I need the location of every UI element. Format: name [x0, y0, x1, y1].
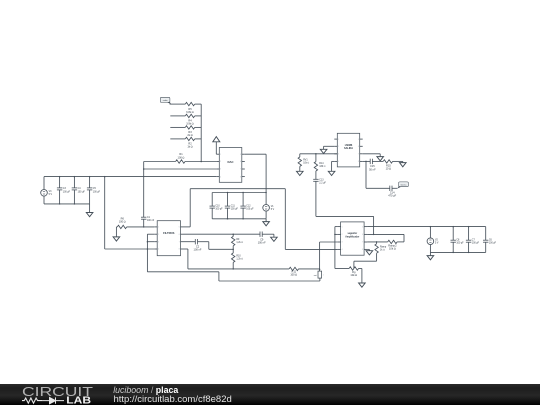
- wire R6 to FILTROS pin1: [127, 226, 155, 228]
- svg-text:audio: audio: [163, 100, 168, 102]
- svg-text:1: 1: [338, 139, 339, 141]
- wire Ramp top: [376, 242, 378, 244]
- wire node to speaker: [319, 269, 321, 271]
- CircuitLab logo wordmark: [22, 384, 93, 405]
- svg-text:C7: C7: [472, 240, 476, 242]
- wire right bank bottom rail: [430, 251, 485, 253]
- ground LM386 pin7: [377, 154, 384, 161]
- wire L2 horizontal: [147, 271, 219, 273]
- wire speaker feed right: [366, 187, 390, 189]
- svg-text:2: 2: [342, 234, 343, 236]
- wire seg tie vertical: [334, 227, 336, 269]
- svg-text:1: 1: [342, 226, 343, 228]
- wire C13 path down: [373, 216, 375, 234]
- svg-text:4: 4: [158, 249, 159, 251]
- wire C9 to corner: [262, 233, 274, 235]
- resistor Ramp2: [388, 240, 397, 251]
- svg-text:1k Ω: 1k Ω: [380, 249, 385, 252]
- svg-text:SALIDA: SALIDA: [344, 147, 353, 150]
- svg-text:C10: C10: [215, 205, 220, 207]
- svg-text:out: out: [314, 274, 317, 277]
- wire seg pin7 out: [367, 241, 388, 243]
- svg-text:6: 6: [240, 161, 241, 163]
- svg-text:3: 3: [220, 169, 221, 171]
- svg-text:V3: V3: [49, 191, 53, 193]
- junction Ramp top: [376, 241, 378, 243]
- node flag IN (audio input tag): [160, 97, 171, 104]
- svg-text:5: 5: [240, 154, 241, 156]
- svg-text:8: 8: [362, 249, 363, 251]
- junction right rail V2: [430, 226, 432, 228]
- ground zobel: [400, 161, 407, 166]
- svg-text:7: 7: [240, 169, 241, 171]
- svg-text:7: 7: [362, 242, 363, 244]
- junction bus-DAC wire: [200, 161, 202, 163]
- wire fb riser: [403, 234, 405, 242]
- svg-text:5 V: 5 V: [271, 209, 275, 211]
- junction tie pin3: [147, 241, 149, 243]
- svg-text:2,2 µF: 2,2 µF: [319, 183, 326, 185]
- svg-text:6,8k Ω: 6,8k Ω: [186, 110, 194, 114]
- svg-text:100 µF: 100 µF: [215, 209, 223, 211]
- junction tie pin4: [147, 248, 149, 250]
- svg-text:1,2k Ω: 1,2k Ω: [236, 241, 243, 244]
- capacitor C7: [466, 227, 480, 253]
- wire R3 to bus: [195, 126, 202, 128]
- capacitor C11: [225, 193, 239, 219]
- junction bottom C4: [59, 203, 75, 205]
- resistor R15 zobel: [383, 160, 392, 171]
- wire R11 to node: [299, 268, 320, 270]
- svg-text:8: 8: [179, 249, 180, 251]
- wire FILTROS pin2 out: [184, 233, 261, 235]
- wire R2 to bus: [195, 138, 202, 140]
- svg-text:R10: R10: [236, 255, 241, 257]
- wire Ramp2 right: [397, 241, 404, 243]
- resistor Ramp: [375, 244, 387, 253]
- wire divider top stub: [232, 234, 234, 236]
- svg-text:100 Ω: 100 Ω: [290, 273, 297, 277]
- capacitor C3: [57, 177, 71, 204]
- capacitor C10: [210, 193, 224, 219]
- junction C1 bottom: [143, 226, 145, 228]
- wire left bank top rail: [44, 176, 216, 178]
- ground LM386 pin4: [328, 161, 335, 175]
- ground LM386 pin2: [320, 146, 334, 153]
- junction mid rail V1: [265, 192, 267, 194]
- wire FILTROS out pin1: [184, 226, 191, 228]
- capacitor C8: [451, 227, 465, 253]
- wire left rail vertical: [104, 177, 106, 249]
- svg-text:100 µF: 100 µF: [78, 191, 86, 193]
- op-amp U4 seguidor block: [338, 222, 368, 255]
- capacitor C1 input coupling: [141, 217, 155, 227]
- svg-text:2k Ω: 2k Ω: [187, 133, 192, 137]
- svg-text:3,9k Ω: 3,9k Ω: [186, 122, 194, 126]
- junction R14 top: [315, 153, 317, 155]
- wire FILTROS pins tie vertical: [146, 234, 148, 272]
- svg-text:2: 2: [158, 234, 159, 236]
- wire right bank rail: [367, 226, 486, 228]
- svg-text:6: 6: [179, 234, 180, 236]
- capacitor C6: [483, 227, 497, 253]
- resistor R4: [185, 114, 194, 125]
- svg-text:C6: C6: [489, 240, 493, 242]
- svg-text:1: 1: [323, 275, 324, 277]
- wire signal A horizontal: [190, 188, 285, 190]
- wire R4 to bus: [195, 115, 202, 117]
- capacitor C9 series: [258, 232, 266, 245]
- power VCC arrow for DAC: [213, 137, 220, 155]
- svg-text:1k Ω: 1k Ω: [187, 145, 192, 149]
- svg-text:4: 4: [342, 249, 343, 251]
- svg-text:100 µF: 100 µF: [63, 191, 71, 193]
- resistor R11: [289, 267, 298, 277]
- junction rail C4: [74, 176, 76, 178]
- junction wire3 on vertical: [143, 168, 145, 170]
- junction rail down-feed: [104, 176, 106, 178]
- wire C13 down: [315, 181, 317, 216]
- ground seg pin8: [366, 249, 373, 255]
- svg-text:C5: C5: [93, 188, 97, 190]
- svg-text:100 µF: 100 µF: [231, 209, 239, 211]
- node flag bocina: [397, 182, 408, 189]
- junction mid rail C11: [227, 192, 229, 220]
- ground mid bank: [263, 219, 270, 226]
- wire vertical to Cin: [143, 162, 145, 218]
- wire DAC pin5 to supply: [245, 153, 266, 155]
- wire LM386 pin7 out: [363, 153, 381, 155]
- voltage source V3: [41, 177, 53, 204]
- ground left bank: [86, 204, 93, 217]
- ground mic bias: [113, 227, 120, 241]
- svg-text:RV1: RV1: [303, 159, 308, 161]
- speaker SPK1: [314, 271, 324, 278]
- wire seg pin2 stub: [335, 233, 338, 235]
- wire feedback horizontal: [354, 260, 377, 262]
- svg-text:seguidor: seguidor: [347, 233, 357, 235]
- wire tag to R5: [170, 103, 186, 105]
- svg-text:4: 4: [220, 176, 221, 178]
- junction right rail C7: [468, 226, 470, 253]
- junction divider mid: [232, 249, 234, 251]
- junction rail C5: [89, 176, 91, 178]
- svg-text:8: 8: [358, 161, 359, 163]
- junction mid bottom C11: [227, 218, 229, 220]
- wire riser pin1 up: [189, 189, 191, 227]
- wire feedback down: [353, 261, 355, 268]
- wire pin2 stub: [147, 233, 154, 235]
- wire Rg right: [359, 268, 362, 270]
- wire gnd to R6: [115, 226, 118, 228]
- svg-text:5 V: 5 V: [435, 243, 439, 245]
- resistor R6: [117, 216, 126, 228]
- svg-text:1: 1: [158, 227, 159, 229]
- wire FILTROS pin3 out: [184, 241, 196, 243]
- wire C15 to R15: [372, 160, 383, 162]
- wire signal A down: [284, 189, 286, 250]
- wire speaker feed down: [365, 161, 367, 188]
- junction speaker feed: [365, 161, 367, 163]
- svg-text:5: 5: [179, 227, 180, 229]
- wire DAC pin3 row: [144, 168, 217, 170]
- svg-text:4: 4: [338, 161, 339, 163]
- junction right rail C8: [452, 226, 454, 253]
- svg-text:100 µF: 100 µF: [472, 243, 480, 245]
- svg-text:V1: V1: [271, 206, 275, 208]
- svg-text:100 Ω: 100 Ω: [119, 220, 126, 224]
- capacitor C5: [87, 177, 101, 204]
- svg-text:FILTROS: FILTROS: [163, 231, 175, 235]
- capacitor C15 zobel: [369, 159, 376, 172]
- wire R10 to L1: [232, 262, 234, 269]
- svg-text:2: 2: [338, 146, 339, 148]
- potentiometer RV1: [298, 154, 309, 172]
- svg-text:Amplificador: Amplificador: [345, 236, 359, 239]
- svg-text:430 Ω: 430 Ω: [319, 165, 325, 168]
- wire stub R3 left: [170, 126, 185, 128]
- junction mid rail C12: [242, 192, 244, 220]
- wire tie to Rg: [335, 268, 349, 270]
- op-amp U2 FILTROS block: [154, 221, 183, 256]
- svg-text:100 µF: 100 µF: [489, 243, 497, 245]
- capacitor C2 series: [194, 239, 202, 252]
- junction C13 feed: [373, 234, 375, 236]
- svg-text:http://circuitlab.com/cf8e82d: http://circuitlab.com/cf8e82d: [114, 394, 232, 405]
- svg-text:10k Ω: 10k Ω: [389, 247, 396, 251]
- capacitor C13: [313, 171, 326, 185]
- wire LM386 pin3 rail: [300, 153, 338, 155]
- wire R5 to bus: [195, 103, 202, 105]
- ground RV1: [297, 171, 304, 175]
- svg-text:R14: R14: [319, 163, 324, 165]
- wire R1 to DAC pin2: [185, 161, 216, 163]
- wire supply vertical: [265, 154, 267, 192]
- svg-text:2: 2: [220, 161, 221, 163]
- junction seg tie: [334, 234, 336, 236]
- junction divider top: [232, 233, 234, 235]
- wire LM386 pin8 out: [363, 160, 371, 162]
- wire pin3 stub: [147, 241, 154, 243]
- resistor R1: [176, 152, 185, 163]
- svg-text:5: 5: [358, 139, 359, 141]
- svg-text:3: 3: [158, 241, 159, 243]
- svg-text:1: 1: [220, 154, 221, 156]
- wire R15 to gnd: [393, 160, 403, 162]
- ground Rg: [359, 269, 366, 288]
- junction rail C3: [59, 176, 61, 178]
- svg-text:C4: C4: [78, 188, 82, 190]
- wire mid bank bottom rail: [212, 218, 266, 220]
- wire to divider mid: [209, 248, 233, 250]
- svg-text:Ramp: Ramp: [380, 246, 387, 248]
- svg-text:C11: C11: [231, 205, 236, 207]
- wire pin3 riser: [319, 242, 321, 269]
- svg-text:50 nF: 50 nF: [369, 167, 376, 171]
- wire mid bank top rail: [212, 192, 266, 194]
- svg-text:10k Ω: 10k Ω: [303, 162, 309, 165]
- svg-text:6: 6: [362, 234, 363, 236]
- wire stub R2 left: [170, 138, 185, 140]
- svg-text:C1: C1: [147, 217, 151, 219]
- wire L1 left: [188, 268, 289, 270]
- svg-text:7: 7: [358, 154, 359, 156]
- wire seg pin1 corner: [335, 226, 338, 228]
- capacitor C12: [240, 193, 254, 219]
- svg-text:10 Ω: 10 Ω: [386, 167, 392, 171]
- svg-text:LAB: LAB: [66, 395, 91, 405]
- voltage source V1: [263, 193, 275, 219]
- wire L2 riser to speaker: [319, 278, 321, 281]
- junction divider bottom: [232, 268, 234, 270]
- capacitor C4: [72, 177, 86, 204]
- wire down to divider: [208, 242, 210, 250]
- resistor R5: [185, 102, 194, 114]
- wire signal A to seguidor: [285, 248, 337, 250]
- wire left bank bottom rail: [44, 203, 90, 205]
- op-amp U3 LM386 SALIDA block: [334, 133, 362, 167]
- svg-text:C3: C3: [63, 188, 67, 190]
- resistor R10: [232, 253, 244, 262]
- wire L2 right: [219, 280, 320, 282]
- junction speaker top node: [319, 268, 321, 270]
- wire C2 right: [198, 241, 209, 243]
- ground after C9: [271, 234, 278, 241]
- svg-text:100 nF: 100 nF: [194, 248, 202, 252]
- wire C14 to tag: [392, 187, 397, 189]
- svg-text:C12: C12: [246, 205, 251, 207]
- wire seg pin6 out: [367, 233, 404, 235]
- resistor R2: [185, 137, 194, 149]
- wire corner to R1: [144, 161, 176, 163]
- wire pin4 riser down: [187, 249, 189, 269]
- capacitor C14 output: [388, 186, 396, 198]
- wire FILTROS pin4 out: [184, 248, 188, 250]
- svg-text:3: 3: [338, 154, 339, 156]
- wire pin3 seguidor: [320, 241, 338, 243]
- ground right bank: [427, 252, 434, 259]
- wire left rail to FILTROS: [105, 248, 155, 250]
- svg-text:C13: C13: [319, 180, 324, 182]
- svg-text:R9: R9: [236, 239, 240, 241]
- voltage source V2: [427, 227, 439, 253]
- svg-text:100 Ω: 100 Ω: [178, 155, 185, 159]
- svg-text:3: 3: [342, 242, 343, 244]
- wire C13 path right: [316, 215, 374, 217]
- wire stub R4 left: [170, 115, 185, 117]
- wire ladder bus vertical: [200, 104, 202, 161]
- svg-text:C8: C8: [456, 240, 460, 242]
- svg-text:10k Ω: 10k Ω: [350, 273, 357, 277]
- resistor R3: [185, 126, 194, 137]
- svg-text:6: 6: [358, 146, 359, 148]
- svg-text:100 µF: 100 µF: [456, 243, 464, 245]
- svg-text:5 V: 5 V: [49, 194, 53, 196]
- svg-text:470 µF: 470 µF: [388, 194, 396, 198]
- svg-text:8: 8: [240, 176, 241, 178]
- svg-text:V2: V2: [435, 239, 439, 241]
- svg-text:5: 5: [362, 226, 363, 228]
- svg-text:100 nF: 100 nF: [147, 220, 155, 222]
- op-amp U1 DAC block: [216, 148, 245, 183]
- wire R9 to mid: [232, 246, 234, 253]
- svg-text:bocina: bocina: [401, 184, 408, 186]
- svg-text:7: 7: [179, 241, 180, 243]
- svg-text:100 µF: 100 µF: [246, 209, 254, 211]
- wire L2 down: [218, 272, 220, 281]
- svg-text:1,2k Ω: 1,2k Ω: [236, 258, 243, 261]
- svg-text:100 nF: 100 nF: [258, 241, 266, 245]
- svg-text:100 µF: 100 µF: [93, 191, 101, 193]
- wire Ramp bottom: [376, 253, 378, 261]
- footer title text: [113, 385, 232, 405]
- resistor R14: [314, 154, 326, 171]
- resistor Rg: [349, 267, 358, 277]
- resistor R9: [232, 236, 244, 245]
- svg-text:DAC: DAC: [227, 160, 233, 164]
